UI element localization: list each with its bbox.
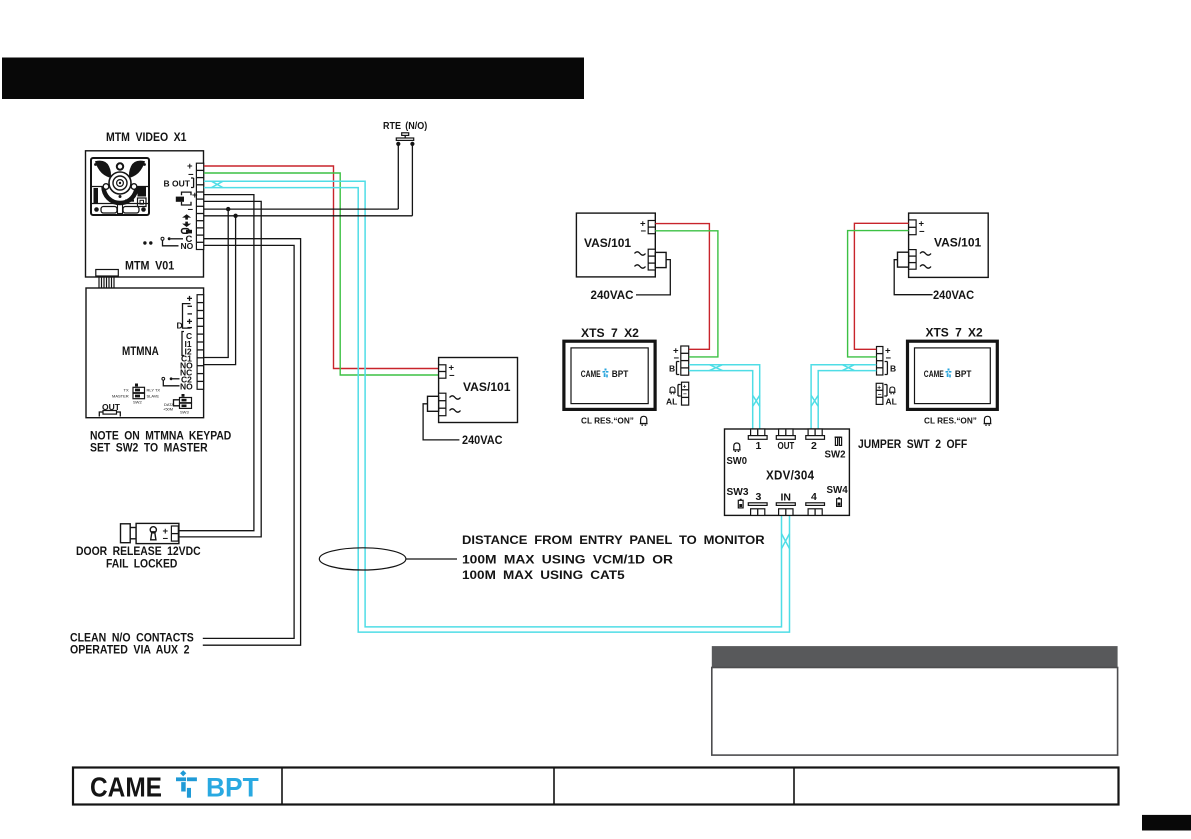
svg-text:TX: TX xyxy=(124,388,129,393)
wire cyan left monitor B upper xyxy=(689,365,760,430)
svg-text:MTMNA: MTMNA xyxy=(122,344,159,358)
svg-text:MTM V01: MTM V01 xyxy=(125,259,174,273)
svg-text:−: − xyxy=(449,371,455,382)
svg-text:+50M: +50M xyxy=(163,407,173,412)
terminal strip of MTM VIDEO X1 (12 cells) xyxy=(196,163,203,249)
svg-text:MTM VIDEO X1: MTM VIDEO X1 xyxy=(106,130,187,144)
power supply VAS/101 centre xyxy=(428,358,518,423)
push-button RTE xyxy=(396,133,414,146)
svg-text:−: − xyxy=(683,391,687,398)
svg-text:B: B xyxy=(669,364,675,374)
svg-text:B: B xyxy=(890,364,896,374)
svg-text:100M MAX USING CAT5: 100M MAX USING CAT5 xyxy=(462,568,625,582)
bell icon left monitor xyxy=(640,416,648,425)
svg-text:SW4: SW4 xyxy=(827,484,848,496)
wire black aux NO xyxy=(203,245,294,638)
svg-text:−: − xyxy=(878,391,882,398)
svg-text:2: 2 xyxy=(811,440,817,452)
svg-text:SLAVE: SLAVE xyxy=(147,394,160,399)
svg-text:+: + xyxy=(192,190,198,201)
svg-text:3: 3 xyxy=(756,491,762,503)
jumper SW3 (DATA) xyxy=(163,394,192,415)
wire cyan B OUT lower xyxy=(204,188,790,632)
twisted-pair crossing at B OUT xyxy=(211,181,223,187)
BPT symbol xyxy=(176,770,197,798)
svg-text:D: D xyxy=(177,321,183,331)
svg-text:4: 4 xyxy=(811,491,817,503)
notes table header xyxy=(712,646,1118,667)
svg-text:VAS/101: VAS/101 xyxy=(463,380,511,394)
power supply VAS/101 top middle xyxy=(576,213,666,277)
wire cyan B OUT upper xyxy=(204,181,782,627)
svg-text:RTE (N/O): RTE (N/O) xyxy=(383,120,427,132)
branch to MTMNA NO xyxy=(204,216,236,365)
svg-text:100M MAX USING VCM/1D OR: 100M MAX USING VCM/1D OR xyxy=(462,553,673,567)
twisted crossing left monitor pair xyxy=(709,365,722,371)
XDV terminal 3 xyxy=(748,491,767,515)
branch to MTMNA C1 xyxy=(204,209,228,357)
svg-text:VAS/101: VAS/101 xyxy=(584,236,631,250)
svg-text:BPT: BPT xyxy=(612,369,629,379)
svg-text:−: − xyxy=(188,205,194,216)
wire RTE right pole xyxy=(411,144,413,216)
wire RTE left pole xyxy=(397,144,399,209)
svg-text:SET SW2 TO MASTER: SET SW2 TO MASTER xyxy=(90,441,208,455)
svg-text:AL: AL xyxy=(666,397,677,407)
twisted crossing left drop pair xyxy=(753,395,760,406)
wire black RTE/C1 xyxy=(204,208,398,210)
svg-text:CL RES.“ON”: CL RES.“ON” xyxy=(924,416,977,426)
XDV SW2 jumper icon + label xyxy=(825,437,846,460)
svg-text:OUT: OUT xyxy=(778,440,795,452)
svg-text:XDV/304: XDV/304 xyxy=(766,469,814,483)
monitor XTS 7 X2 right xyxy=(908,341,998,409)
distributor XDV/304 xyxy=(725,429,850,515)
svg-text:DISTANCE FROM ENTRY PANEL TO M: DISTANCE FROM ENTRY PANEL TO MONITOR xyxy=(462,533,765,547)
terminal strip left monitor xyxy=(669,346,689,376)
svg-text:240VAC: 240VAC xyxy=(462,433,503,447)
svg-text:MASTER: MASTER xyxy=(112,394,129,399)
svg-text:B OUT: B OUT xyxy=(164,179,191,189)
svg-text:FAIL LOCKED: FAIL LOCKED xyxy=(106,557,178,571)
bell icon right monitor xyxy=(984,416,992,425)
XDV terminal 2 xyxy=(806,429,825,452)
title banner (solid black) xyxy=(2,58,584,100)
wire black aux C xyxy=(203,239,301,646)
aux contact symbol inside panel xyxy=(161,237,164,240)
svg-text:SW3: SW3 xyxy=(180,410,189,415)
keypad box MTMNA xyxy=(86,288,204,418)
svg-text:OPERATED VIA AUX 2: OPERATED VIA AUX 2 xyxy=(70,643,190,657)
entry panel box MTM VIDEO X1 xyxy=(86,151,204,277)
aux contact symbol inside keypad xyxy=(162,377,165,380)
callout leader line xyxy=(406,558,457,560)
svg-text:BPT: BPT xyxy=(206,773,259,803)
240VAC feed centre xyxy=(423,404,459,440)
svg-text:IN: IN xyxy=(781,492,792,504)
junction dot C1 xyxy=(226,207,230,211)
wire red (+ video riser to VAS/101) xyxy=(204,166,439,369)
terminal strip of MTMNA (12 cells) xyxy=(197,295,204,390)
svg-text:JUMPER SWT 2 OFF: JUMPER SWT 2 OFF xyxy=(858,437,967,451)
terminal labels of MTM VIDEO X1 xyxy=(143,161,198,251)
XDV terminal 1 xyxy=(748,429,767,452)
terminal labels of MTMNA xyxy=(162,296,193,392)
XDV terminal IN xyxy=(776,492,795,516)
wire green (- video riser to VAS/101) xyxy=(204,173,439,375)
svg-text:−: − xyxy=(919,227,925,238)
svg-text:XTS 7 X2: XTS 7 X2 xyxy=(926,326,984,340)
svg-text:240VAC: 240VAC xyxy=(933,288,974,302)
wire black lock + xyxy=(178,195,254,531)
wire red VAS to left monitor xyxy=(655,224,709,350)
svg-text:−: − xyxy=(886,353,892,364)
wire green VAS to left monitor xyxy=(655,231,718,357)
svg-text:NO: NO xyxy=(180,382,193,392)
door release lock xyxy=(121,523,179,544)
svg-text:RLY TX: RLY TX xyxy=(147,388,161,393)
svg-text:SW3: SW3 xyxy=(727,486,749,498)
svg-text:BPT: BPT xyxy=(955,369,972,379)
twisted crossing right monitor pair xyxy=(842,365,854,371)
svg-text:VAS/101: VAS/101 xyxy=(934,236,982,250)
svg-text:SW2: SW2 xyxy=(133,400,142,405)
ribbon cable between MTM V01 and MTMNA xyxy=(96,270,119,307)
svg-text:CAME: CAME xyxy=(581,369,601,379)
page corner black mark xyxy=(1142,815,1191,831)
240VAC feed top middle xyxy=(636,260,670,295)
240VAC feed right xyxy=(894,260,932,295)
svg-text:SW2: SW2 xyxy=(825,449,846,461)
wire cyan left monitor B lower xyxy=(689,371,753,430)
svg-text:SW0: SW0 xyxy=(727,455,748,467)
XDV SW0 bell + label xyxy=(733,443,741,451)
svg-text:+: + xyxy=(683,384,687,391)
wire green VAS to right monitor xyxy=(848,231,909,357)
AL terminal strip left monitor xyxy=(666,382,689,406)
svg-text:CAME: CAME xyxy=(90,772,162,803)
monitor XTS 7 X2 left xyxy=(564,341,655,409)
junction dot NO xyxy=(233,214,237,218)
twisted crossing right drop pair xyxy=(811,395,818,406)
svg-text:240VAC: 240VAC xyxy=(591,288,634,302)
svg-text:CL RES.“ON”: CL RES.“ON” xyxy=(581,416,634,426)
svg-text:−: − xyxy=(163,534,169,545)
twisted-pair crossing above XDV IN xyxy=(782,534,790,549)
XDV terminal 4 xyxy=(806,491,825,515)
svg-text:1: 1 xyxy=(756,440,762,452)
footer title bar xyxy=(73,768,1119,805)
cable ellipse callout xyxy=(319,548,406,570)
camera module face xyxy=(91,158,149,215)
terminal strip right monitor xyxy=(877,346,897,376)
wire black lock - xyxy=(178,201,261,537)
wire cyan right monitor B lower xyxy=(818,371,876,430)
power supply VAS/101 right xyxy=(898,213,989,277)
wire red VAS to right monitor xyxy=(854,223,908,349)
svg-text:−: − xyxy=(641,226,647,237)
svg-text:CAME: CAME xyxy=(924,369,944,379)
svg-text:NO: NO xyxy=(181,241,194,251)
svg-text:+: + xyxy=(877,384,881,391)
svg-text:AL: AL xyxy=(886,397,897,407)
wire cyan right monitor B upper xyxy=(811,365,876,430)
notes table body xyxy=(712,668,1118,756)
svg-text:XTS 7 X2: XTS 7 X2 xyxy=(581,326,639,340)
XDV terminal OUT xyxy=(776,429,795,452)
jumper SW2 (MASTER/SLAVE) xyxy=(112,384,160,405)
wire black RTE/NO xyxy=(204,215,413,217)
AL terminal strip right monitor xyxy=(876,383,897,406)
OUT connector of MTMNA xyxy=(99,402,120,417)
